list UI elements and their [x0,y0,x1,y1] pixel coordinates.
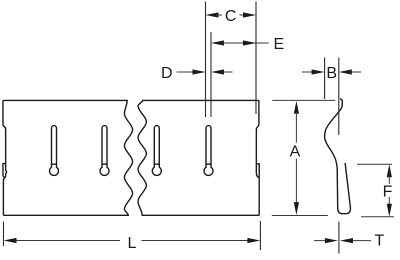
extension line slot4 left (C/D left) [205,2,207,118]
extension line slot4 right (D/E left) [210,32,212,117]
svg-text:F: F [383,184,393,201]
dimension T [338,222,340,254]
svg-text:L: L [128,235,137,252]
dimension E [211,40,224,45]
svg-text:B: B [326,65,337,82]
keyhole slot 3 [152,126,161,176]
dimension A [272,99,335,101]
break wavy line (left piece right edge) [124,100,132,215]
dimension L [3,222,5,247]
strip front view: right piece outline [142,100,259,215]
svg-text:C: C [225,8,237,25]
extension line next slot (C/E right) [255,2,257,115]
keyhole slot 1 [50,126,59,176]
svg-text:D: D [161,65,173,82]
svg-text:T: T [375,233,385,250]
dimension B [324,58,326,100]
right end inner hook [256,164,259,177]
dimension C [206,12,219,17]
left end inner hook [5,164,6,178]
svg-text:E: E [273,36,284,53]
side view profile [325,99,351,214]
keyhole slot 2 [100,126,109,176]
svg-text:A: A [290,143,301,160]
break wavy line (right piece left edge) [138,100,146,215]
dimension F [357,163,392,165]
keyhole slot 4 [204,126,213,176]
strip front view: left piece outline [3,100,128,215]
